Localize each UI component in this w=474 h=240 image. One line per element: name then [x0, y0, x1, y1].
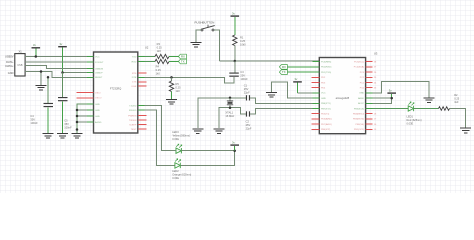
- junction C4 branch: [47, 76, 50, 79]
- svg-text:FT232RQ: FT232RQ: [110, 86, 121, 90]
- wire pushbutton right to W1: [214, 30, 220, 61]
- svg-text:TEST: TEST: [131, 129, 137, 131]
- U2 left pin stubs: [87, 57, 94, 123]
- svg-text:Yellow (590nm): Yellow (590nm): [172, 134, 190, 138]
- wire USB5V to U2 VCC: [25, 56, 93, 58]
- wire U3 GND pin to ground right: [372, 81, 429, 97]
- wire W1 to C3: [234, 61, 236, 73]
- svg-text:1k0: 1k0: [157, 49, 162, 53]
- svg-text:25V: 25V: [240, 73, 245, 77]
- wire U2 RXLED to LED2: [145, 110, 175, 165]
- svg-text:R2: R2: [454, 93, 458, 97]
- junction LED cathodes: [233, 149, 236, 152]
- svg-text:GND: GND: [8, 71, 14, 75]
- svg-text:Orange (620nm): Orange (620nm): [172, 173, 191, 177]
- junction R5 top: [170, 76, 173, 79]
- resistor R5: [169, 77, 181, 92]
- wire C5 to ground: [62, 101, 64, 133]
- wire C1 to U3 XTAL1: [250, 98, 319, 104]
- LED2: [172, 159, 191, 180]
- svg-text:GND: GND: [95, 116, 100, 118]
- svg-text:0.25: 0.25: [454, 97, 460, 101]
- wire U2 RXD to R4: [145, 61, 156, 63]
- svg-text:0.03E: 0.03E: [172, 137, 179, 141]
- junction crystal top: [229, 97, 232, 100]
- svg-text:25V: 25V: [244, 87, 249, 91]
- net flag TX (left): [178, 59, 186, 64]
- svg-text:GND: GND: [359, 93, 364, 95]
- junction bus 4: [76, 128, 79, 131]
- svg-text:GND: GND: [95, 110, 100, 112]
- connector X1 pin stubs: [25, 57, 29, 72]
- junction crystal bottom: [229, 106, 232, 109]
- ground G1: [191, 42, 202, 47]
- resistor R4: [155, 59, 169, 75]
- ground G9: [424, 98, 435, 103]
- U3 pin names right: [353, 62, 365, 132]
- ground G6: [214, 129, 225, 134]
- svg-text:PC5(SCL): PC5(SCL): [354, 62, 364, 64]
- ground G5: [192, 129, 203, 134]
- svg-text:C1: C1: [244, 84, 248, 88]
- capacitor C2: [246, 111, 252, 130]
- pushbutton S1: [195, 21, 215, 32]
- svg-text:C4: C4: [30, 114, 34, 118]
- U2 right pin stubs green: [138, 57, 145, 111]
- svg-text:R1: R1: [240, 35, 244, 39]
- svg-text:USB5V: USB5V: [5, 55, 14, 59]
- svg-text:PD1(TXD): PD1(TXD): [321, 72, 331, 74]
- svg-text:DATA-: DATA-: [6, 60, 14, 64]
- wire R4 to TX flag: [169, 61, 178, 63]
- svg-text:PD7(AIN1): PD7(AIN1): [321, 123, 332, 126]
- junction P2/C5: [61, 71, 64, 74]
- svg-text:CTS: CTS: [132, 82, 137, 84]
- svg-text:DATA+: DATA+: [5, 64, 14, 68]
- U2 right unconnected pin stubs: [138, 73, 147, 129]
- svg-text:0.25: 0.25: [156, 68, 162, 72]
- svg-text:PB3(MOSI): PB3(MOSI): [353, 119, 364, 121]
- svg-text:USBDP: USBDP: [95, 72, 103, 74]
- svg-text:TX: TX: [282, 70, 286, 74]
- supply 3V P6: [230, 141, 239, 151]
- svg-text:3V3OUT: 3V3OUT: [95, 62, 104, 64]
- svg-text:PUSHBUTTON: PUSHBUTTON: [195, 21, 215, 25]
- LED1: [407, 102, 422, 126]
- U3 right pin numbers: [374, 62, 377, 132]
- svg-text:TXDEN: TXDEN: [129, 120, 137, 122]
- svg-text:USBDM: USBDM: [95, 68, 103, 70]
- svg-text:atmega328: atmega328: [336, 96, 350, 100]
- wire U2 TXD to R3: [145, 56, 156, 58]
- svg-text:TX: TX: [181, 60, 185, 64]
- svg-text:100nF: 100nF: [240, 77, 248, 81]
- svg-text:RESET: RESET: [95, 77, 103, 79]
- svg-text:TXLED: TXLED: [129, 105, 136, 107]
- wire LED3 to 3V: [181, 150, 234, 152]
- svg-text:C2: C2: [246, 119, 250, 123]
- svg-text:USB: USB: [17, 63, 23, 67]
- svg-text:RTS: RTS: [132, 73, 137, 75]
- svg-text:0.03E: 0.03E: [172, 176, 179, 180]
- junction GND net: [40, 70, 43, 73]
- capacitor C5: [58, 97, 72, 130]
- wire P4 to U3 VCC: [298, 92, 320, 94]
- resistor R1: [233, 35, 247, 46]
- svg-text:100nF: 100nF: [30, 121, 38, 125]
- svg-text:PD5(T1): PD5(T1): [321, 114, 330, 116]
- ground G2: [36, 85, 47, 90]
- ground below C5: [57, 134, 68, 139]
- wire U2 GND bus: [77, 104, 94, 133]
- U3 left unconnected pin stubs: [312, 77, 320, 129]
- IC U2 FT232RQ body: [94, 45, 149, 133]
- svg-text:0.25: 0.25: [176, 85, 182, 89]
- svg-text:1k0: 1k0: [156, 71, 161, 75]
- svg-text:PB0(ICP): PB0(ICP): [321, 129, 331, 131]
- wire U3 PB5 to LED1: [372, 108, 407, 110]
- wire crystal node B: [219, 108, 246, 128]
- IC U3 atmega328 body: [319, 51, 378, 133]
- U3 right unconnected pin stubs: [366, 62, 373, 130]
- resistor R2: [439, 93, 460, 110]
- svg-text:X1: X1: [19, 50, 23, 54]
- wire TX flag to U3: [287, 71, 319, 73]
- U2 left unconnected pin stubs: [77, 93, 94, 98]
- ground G4: [166, 100, 177, 105]
- ground G10: [460, 128, 471, 133]
- svg-text:U2: U2: [145, 45, 149, 49]
- svg-text:10k0: 10k0: [240, 42, 246, 46]
- svg-text:RXLED: RXLED: [129, 110, 137, 112]
- wire R5 to ground: [171, 92, 173, 100]
- svg-text:VCC: VCC: [321, 93, 326, 95]
- crystal XTAL1: [225, 98, 235, 118]
- svg-text:PB1(OC1): PB1(OC1): [354, 129, 364, 131]
- net flag RX (right): [279, 65, 287, 70]
- capacitor C4: [30, 103, 53, 125]
- svg-text:35V: 35V: [64, 122, 69, 126]
- capacitor C1: [244, 84, 250, 101]
- svg-text:OSCI: OSCI: [95, 92, 101, 94]
- U2 pin names left: [95, 56, 104, 124]
- supply 3V P5: [387, 89, 396, 99]
- wire LED1 to R2: [414, 108, 439, 110]
- supply 3V P3: [231, 12, 240, 35]
- U3 left pin stubs green: [313, 62, 320, 109]
- svg-text:PC6(RES): PC6(RES): [321, 62, 331, 64]
- svg-text:AVCC: AVCC: [358, 102, 364, 105]
- U3 right pin stubs green: [366, 93, 373, 109]
- svg-text:100nF: 100nF: [64, 126, 72, 130]
- wire RX flag to U3: [287, 66, 319, 68]
- svg-text:C3: C3: [240, 70, 244, 74]
- supply 3V P4: [293, 77, 302, 93]
- supply 3V P1: [32, 43, 41, 56]
- wire U2 TXLED to LED3: [145, 106, 176, 151]
- svg-text:VCC: VCC: [95, 56, 100, 58]
- net flag RX (left): [178, 54, 186, 59]
- wire W1 reset net: [220, 60, 320, 62]
- svg-text:RXD: RXD: [132, 61, 137, 63]
- wire W2 DTR line: [145, 77, 235, 83]
- svg-text:0.25: 0.25: [157, 46, 163, 50]
- wire R2 to ground: [450, 109, 466, 128]
- supply 3V P2: [58, 42, 67, 72]
- wire pushbutton left to ground: [196, 30, 201, 42]
- svg-text:22pF: 22pF: [246, 126, 252, 130]
- junction bus 1: [76, 109, 79, 112]
- svg-text:Red (625nm): Red (625nm): [407, 118, 422, 122]
- wire DATA+ to U2 USBDM: [25, 66, 93, 69]
- wire LED2 to junction: [180, 151, 234, 166]
- svg-text:GND: GND: [321, 98, 326, 100]
- svg-text:GND: GND: [95, 104, 100, 106]
- svg-text:LED2: LED2: [172, 169, 179, 173]
- svg-text:AGND: AGND: [95, 121, 102, 124]
- wire R1 to W1: [234, 46, 236, 62]
- svg-text:U3: U3: [374, 51, 378, 55]
- svg-text:22pF: 22pF: [244, 91, 250, 95]
- connector X1 pin labels: [5, 55, 14, 76]
- svg-text:16 MHz: 16 MHz: [225, 114, 235, 118]
- wire crystal node A: [198, 98, 246, 128]
- U2 pin names right: [128, 56, 137, 131]
- wire C4 branch: [47, 77, 49, 103]
- capacitor C3: [229, 70, 248, 81]
- wire DATA- to U2: [25, 61, 93, 63]
- svg-text:LED1: LED1: [407, 115, 414, 119]
- net flag TX (right): [279, 70, 287, 75]
- svg-text:DSR: DSR: [132, 86, 137, 88]
- wire P2 to C5: [62, 73, 64, 98]
- svg-text:XTAL1: XTAL1: [225, 111, 233, 115]
- svg-text:C5: C5: [64, 119, 68, 123]
- svg-text:TXD: TXD: [132, 56, 137, 58]
- svg-text:35V: 35V: [30, 117, 35, 121]
- svg-text:R3: R3: [157, 42, 161, 46]
- wire 3V to U2 pin: [63, 72, 94, 74]
- svg-text:PB2(SS): PB2(SS): [355, 124, 364, 126]
- svg-text:PD0(RXD): PD0(RXD): [321, 67, 332, 69]
- svg-text:PD6(AIN0): PD6(AIN0): [321, 118, 332, 121]
- svg-text:1k0: 1k0: [454, 100, 459, 104]
- wire R3 to RX flag: [169, 56, 178, 58]
- connector X1 USB: [15, 50, 25, 77]
- junction bus 3: [76, 121, 79, 124]
- svg-text:0.25: 0.25: [240, 39, 246, 43]
- svg-text:OSCO: OSCO: [95, 98, 102, 100]
- svg-text:PB4(MISO): PB4(MISO): [353, 114, 364, 116]
- svg-text:R5: R5: [176, 82, 180, 86]
- svg-text:PB6(XT1): PB6(XT1): [321, 103, 331, 105]
- wire USB GND net: [25, 72, 93, 78]
- junction bus 2: [76, 115, 79, 118]
- wire C4 to ground: [47, 107, 49, 133]
- svg-text:PB5(SCK): PB5(SCK): [354, 108, 364, 110]
- svg-text:RX: RX: [282, 65, 286, 69]
- junction P5: [390, 97, 393, 100]
- svg-text:PWREN: PWREN: [128, 115, 137, 117]
- svg-text:SLEEP: SLEEP: [129, 124, 137, 126]
- svg-text:R4: R4: [156, 64, 160, 68]
- junction W1/R1/C3: [234, 60, 237, 63]
- svg-text:0.03E: 0.03E: [407, 122, 414, 126]
- LED3: [172, 130, 190, 153]
- ground below C4: [43, 134, 54, 139]
- ground G7: [266, 93, 277, 98]
- svg-text:DTR: DTR: [132, 77, 137, 79]
- wire C2 to U3 XTAL2: [250, 109, 319, 114]
- svg-text:PC4(SDA): PC4(SDA): [354, 66, 364, 69]
- wire G7 to U3 GND pin: [272, 82, 320, 98]
- junction 3V/USB5V: [35, 55, 38, 58]
- svg-text:AREF: AREF: [358, 97, 364, 100]
- svg-text:LED3: LED3: [172, 130, 179, 134]
- ground below GND bus: [72, 134, 83, 139]
- wire GND drop: [40, 72, 42, 85]
- wire U3 AREF/AVCC to 3V: [372, 98, 391, 103]
- svg-text:RX: RX: [181, 55, 185, 59]
- resistor R3: [155, 42, 169, 59]
- U3 pin names left: [321, 62, 332, 132]
- svg-text:25V: 25V: [246, 123, 251, 127]
- svg-text:1k0: 1k0: [176, 89, 181, 93]
- svg-text:PB7(XT2): PB7(XT2): [321, 108, 331, 110]
